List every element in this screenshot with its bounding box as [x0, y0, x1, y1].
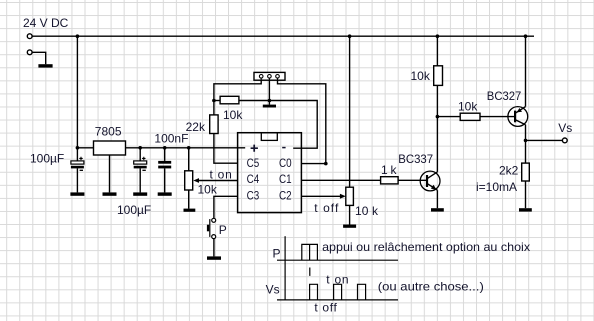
diagram Vs pulse 2 [334, 284, 342, 300]
svg-text:100µF: 100µF [30, 152, 64, 166]
svg-text:C1: C1 [279, 172, 292, 186]
svg-text:22k: 22k [186, 120, 206, 134]
potentiometer t off 10 k [346, 36, 354, 224]
wire to Vs terminal [526, 139, 563, 141]
capacitor C3 100nF [158, 148, 171, 193]
diagram P baseline [277, 259, 398, 261]
ground switch [207, 256, 221, 259]
wire C1 to 1k [301, 179, 380, 181]
wiper arrow toff [340, 194, 346, 199]
svg-text:i=10mA: i=10mA [476, 180, 517, 194]
capacitor C1 100uF [71, 148, 84, 193]
ground C2 [133, 192, 147, 195]
diagram Vs pulse 3 [358, 284, 366, 300]
U1 notch [261, 133, 277, 141]
wire BC337 emitter down [436, 190, 438, 208]
ground C1 [70, 192, 84, 195]
svg-text:C5: C5 [247, 156, 260, 170]
svg-text:2k2: 2k2 [499, 164, 519, 178]
node rail-7805 [76, 34, 80, 38]
wire 5V rail [77, 147, 245, 149]
node Vs [524, 139, 528, 143]
ground pot ton [184, 209, 196, 212]
svg-text:10 k: 10 k [355, 204, 379, 218]
regulator 7805 [94, 141, 126, 155]
node collector-base [436, 115, 440, 119]
svg-text:100µF: 100µF [117, 203, 151, 217]
transistor Q2 BC327 [508, 107, 528, 127]
ground pot toff [343, 225, 356, 228]
node C3in [163, 146, 167, 150]
wire 7805 gnd pin [109, 155, 111, 192]
node rail-pot toff [348, 34, 352, 38]
resistor 10k base [437, 113, 514, 120]
svg-text:10k: 10k [198, 183, 218, 197]
capacitor C2 100uF [134, 148, 147, 193]
pin - [282, 147, 285, 149]
svg-text:Vs: Vs [266, 283, 280, 297]
wire C4 wiper [198, 180, 238, 182]
node C2in [138, 146, 142, 150]
diagram tick [309, 268, 311, 276]
svg-text:BC327: BC327 [487, 89, 522, 103]
diagram P pulse [302, 244, 318, 260]
svg-text:10k: 10k [223, 108, 243, 122]
ground BC337 [431, 208, 444, 211]
svg-text:P: P [219, 223, 227, 237]
wire BC327 collector down [525, 125, 527, 163]
wire J1 pin1 [214, 80, 261, 100]
svg-text:Vs: Vs [558, 121, 572, 135]
svg-text:BC337: BC337 [398, 152, 433, 166]
wire J1 pin2 to ground [268, 80, 270, 104]
wire C2 wiper [301, 195, 341, 197]
resistor 10k top [214, 96, 317, 148]
op-amp U1 box [238, 133, 302, 213]
svg-text:C4: C4 [247, 172, 260, 186]
node pot ton top [187, 146, 191, 150]
wire top rail [32, 35, 534, 37]
svg-text:C2: C2 [279, 188, 292, 202]
diagram Vs pulse 1 [310, 284, 318, 300]
resistor 22k [210, 101, 238, 164]
resistor 10k vertical [434, 36, 443, 85]
wire rail down to regulator [76, 36, 78, 148]
svg-text:(ou autre chose...): (ou autre chose...) [378, 280, 484, 294]
resistor 1k [381, 177, 427, 184]
svg-text:24 V DC: 24 V DC [23, 16, 69, 30]
diagram axis [284, 236, 286, 300]
svg-text:10k: 10k [458, 100, 478, 114]
svg-text:100nF: 100nF [154, 131, 188, 145]
terminal Vs [562, 138, 567, 143]
svg-text:P: P [273, 246, 281, 260]
wire C0 [301, 163, 325, 165]
wire switch to ground [213, 238, 215, 256]
node C0 [324, 162, 328, 166]
terminal +24V [27, 34, 32, 39]
pin + [251, 145, 258, 152]
ground 7805 [103, 192, 117, 195]
wire J1 pin3 to C0 [278, 80, 326, 163]
wire BC337 collector up [436, 85, 438, 171]
ground input [38, 64, 52, 67]
resistor 2k2 [522, 163, 530, 208]
wire terminal to ground [32, 52, 46, 64]
ground 2k2 [519, 208, 532, 211]
wiper arrow ton [193, 178, 199, 183]
svg-text:C3: C3 [247, 188, 260, 202]
terminal 0V [27, 50, 32, 55]
svg-text:t on: t on [210, 167, 232, 181]
svg-text:C0: C0 [279, 156, 292, 170]
wire BC327 emitter up [525, 36, 527, 106]
switch P [207, 218, 216, 238]
transistor Q1 BC337 [420, 171, 440, 191]
node 22k-10k [212, 99, 216, 103]
node rail-BC327 [524, 34, 528, 38]
svg-text:t off: t off [314, 201, 339, 215]
ground C3 [158, 192, 172, 195]
svg-text:t off: t off [314, 301, 337, 315]
ground J1 [263, 105, 276, 108]
potentiometer t on 10k [185, 148, 193, 209]
diagram Vs baseline [277, 299, 398, 301]
svg-text:appui ou relâchement option au: appui ou relâchement option au choix [322, 240, 530, 254]
node C1in [76, 146, 80, 150]
svg-text:10k: 10k [411, 69, 431, 83]
node pin2-10k [268, 99, 272, 103]
wire C3 to switch [214, 196, 238, 218]
connector J1 [254, 72, 285, 80]
node rail-10k [436, 34, 440, 38]
svg-text:7805: 7805 [95, 125, 122, 139]
